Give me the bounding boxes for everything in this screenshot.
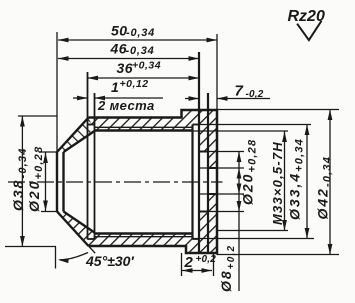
svg-text:-0,34: -0,34 (126, 27, 155, 39)
svg-text:36: 36 (117, 60, 134, 76)
svg-text:1: 1 (111, 79, 119, 95)
svg-text:2: 2 (184, 254, 194, 271)
svg-text:M33×0,5-7H: M33×0,5-7H (270, 141, 285, 225)
svg-text:+0,12: +0,12 (120, 78, 149, 90)
svg-text:7: 7 (235, 83, 244, 100)
svg-text:45°±30′: 45°±30′ (85, 253, 134, 269)
svg-text:-0,34: -0,34 (126, 45, 155, 57)
svg-text:Rz20: Rz20 (288, 8, 325, 25)
svg-text:+0,2: +0,2 (196, 254, 217, 265)
svg-text:2 места: 2 места (97, 98, 155, 113)
svg-text:-0,2: -0,2 (246, 89, 264, 100)
svg-text:46: 46 (110, 41, 128, 57)
svg-text:+0,34: +0,34 (132, 60, 161, 72)
